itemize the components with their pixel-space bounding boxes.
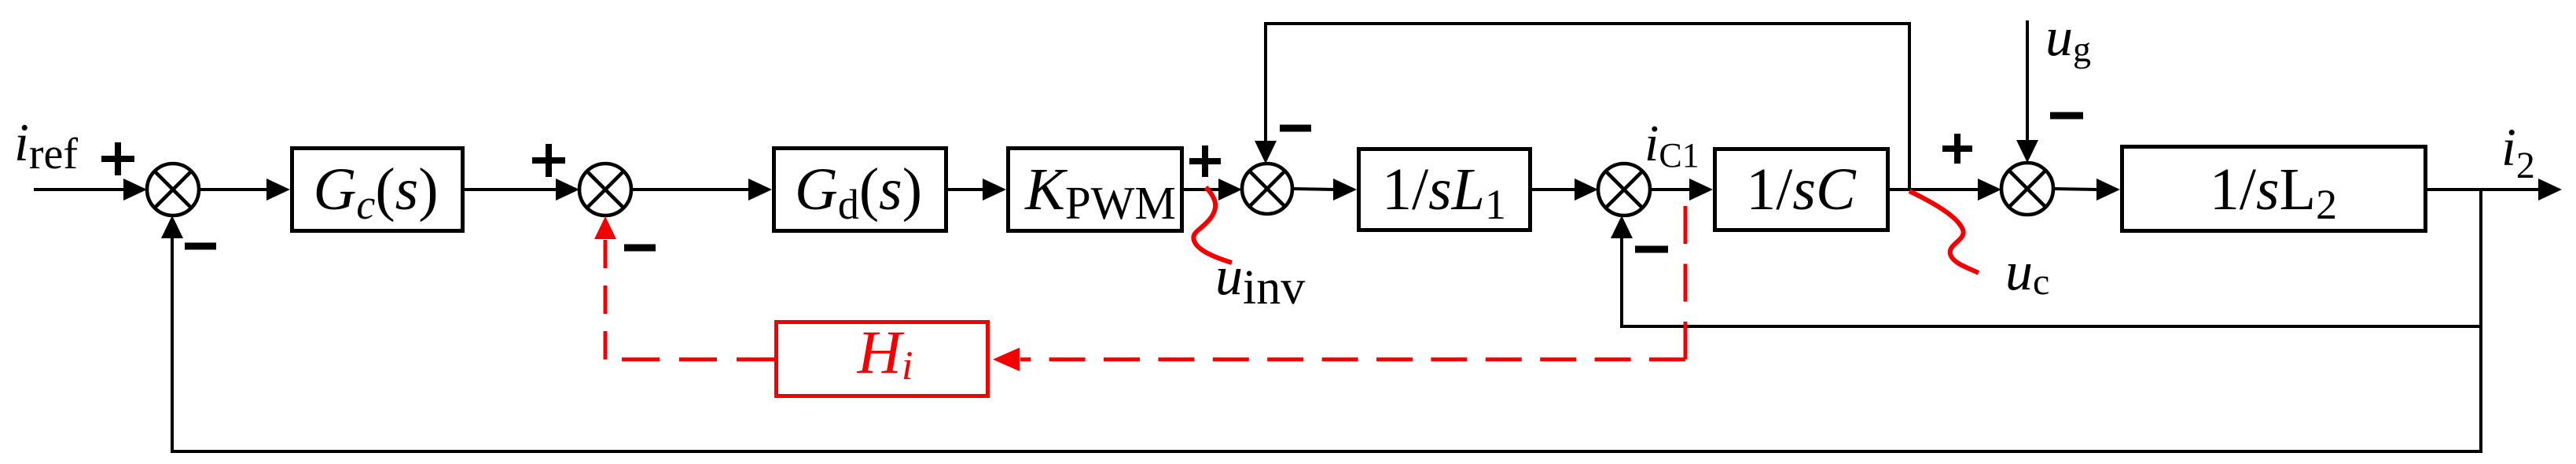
svg-text:Gc(s): Gc(s) <box>313 157 438 228</box>
label minus at J1 bottom <box>185 243 216 250</box>
summing junction J1 <box>147 164 199 215</box>
svg-text:iref: iref <box>14 112 78 179</box>
wire J3 to 1/sL1 <box>1292 179 1357 201</box>
label plus at J2 <box>532 144 565 177</box>
summing junction J3 <box>1242 164 1292 214</box>
label plus at J1 <box>101 142 134 175</box>
summing junction J2 <box>579 164 631 215</box>
block Gc(s) <box>292 149 463 231</box>
wire J2 to Gd <box>631 179 772 201</box>
wire u_g input <box>2016 20 2038 163</box>
label u_c <box>2005 241 2049 303</box>
label minus at u_g <box>2050 112 2083 120</box>
wire Gd to Kpwm <box>948 179 1006 201</box>
block Gd(s) <box>774 149 946 231</box>
summing junction J5 <box>2001 163 2053 215</box>
mid feedback wire from i_2 to J4 <box>1622 238 2481 326</box>
block Kpwm <box>1009 149 1182 231</box>
red dashed wire from i_C1 node to H_i <box>1020 206 1685 359</box>
label i_2 <box>2501 117 2535 186</box>
wire J1 to Gc <box>199 179 290 201</box>
svg-text:Hi: Hi <box>857 318 913 389</box>
wire 1/sC to J5 <box>1890 179 2001 201</box>
svg-text:uinv: uinv <box>1215 246 1305 315</box>
wire: i_ref input line <box>34 179 147 201</box>
svg-text:i2: i2 <box>2501 117 2535 186</box>
top feedback wire from u_c node to J3 <box>1266 24 1909 190</box>
label plus at J3 input <box>1189 145 1221 177</box>
wire Kpwm to J3 <box>1184 179 1242 201</box>
label minus at J4 bottom <box>1635 246 1668 253</box>
block 1/sC <box>1715 149 1888 230</box>
wire 1/sL1 to J4 <box>1532 179 1598 201</box>
label minus at J2 red input <box>624 245 656 252</box>
svg-text:1/sC: 1/sC <box>1746 157 1857 223</box>
svg-text:Gd(s): Gd(s) <box>795 157 922 228</box>
wire Gc to J2 <box>465 179 579 201</box>
svg-text:1/sL1: 1/sL1 <box>1382 157 1506 228</box>
red squiggle leader for u_inv <box>1193 187 1232 263</box>
svg-text:uc: uc <box>2005 241 2049 303</box>
wire output i_2 <box>2427 179 2562 201</box>
svg-text:1/sL2: 1/sL2 <box>2210 157 2337 228</box>
red block H_i <box>777 318 988 396</box>
label plus at J5 <box>1942 134 1972 164</box>
wire J4 to 1/sC <box>1650 179 1713 201</box>
svg-text:ug: ug <box>2045 7 2091 69</box>
svg-text:iC1: iC1 <box>1644 115 1700 175</box>
label i_C1 <box>1644 115 1700 175</box>
wire J5 to 1/sL2 <box>2053 179 2120 201</box>
bottom feedback wire from i_2 to J1 <box>172 190 2481 451</box>
label minus at J3 top <box>1280 125 1311 132</box>
label u_inv <box>1215 246 1305 315</box>
red squiggle leader for u_c <box>1909 191 1979 273</box>
label u_g <box>2045 7 2091 69</box>
block 1/sL2 <box>2122 147 2426 231</box>
summing junction J4 <box>1598 164 1650 215</box>
label i_ref <box>14 112 78 179</box>
red dashed wire from H_i to J2 <box>605 240 774 359</box>
svg-text:KPWM: KPWM <box>1024 157 1176 229</box>
block 1/sL1 <box>1359 149 1531 230</box>
